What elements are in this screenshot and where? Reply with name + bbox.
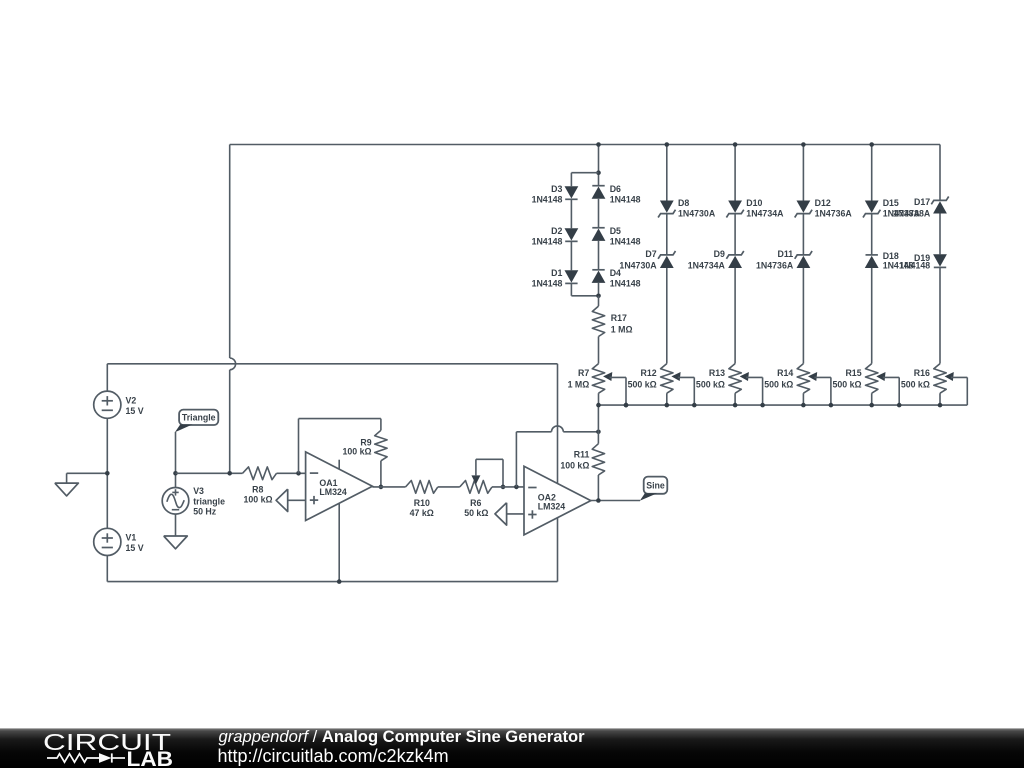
svg-text:15 V: 15 V [126,406,144,416]
voltage source V2 [94,391,144,418]
svg-text:LM324: LM324 [319,487,346,497]
svg-text:1N4738A: 1N4738A [893,208,931,218]
svg-text:grappendorf / Analog Computer: grappendorf / Analog Computer Sine Gener… [219,727,586,746]
svg-text:D11: D11 [778,249,794,259]
svg-text:Sine: Sine [646,480,665,490]
wire column x=666.8 from top bus [666,145,668,201]
svg-text:1N4736A: 1N4736A [815,208,853,218]
svg-text:LM324: LM324 [538,502,565,512]
wire top rail V+ [107,363,557,365]
wire [939,214,941,255]
potentiometer R14 500k [764,364,831,406]
svg-text:1N4730A: 1N4730A [619,261,657,271]
svg-text:D18: D18 [883,251,899,261]
node junction R6 wiper [501,485,506,490]
net flag Sine [640,477,668,501]
node junction ladder bottom [596,294,601,299]
net flag Triangle [175,410,218,433]
zener diode D11 1N4736A [756,249,812,271]
resistor R17 1M [592,296,632,364]
node junction input column [227,471,232,476]
zener diode D7 1N4730A [619,249,675,271]
node junction V3 top [173,471,178,476]
svg-text:D7: D7 [645,249,656,259]
wire top bus [230,144,940,146]
resistor R10 47k [406,481,438,518]
zener diode D10 1N4734A [726,198,784,218]
CircuitLab logo [43,729,173,768]
svg-text:100 kΩ: 100 kΩ [343,446,372,456]
node junction OA1 power on rail [337,579,342,584]
wire [570,241,572,270]
wire R8 to OA1 inverting input [277,472,306,474]
wire [939,267,941,363]
node junction V1-V2 mid [105,471,110,476]
svg-text:V2: V2 [126,396,137,406]
diode D6 1N4148 [592,184,641,205]
wire [802,214,804,255]
ground GND3 at OA1 non-inverting input [276,489,306,511]
svg-text:R16: R16 [914,368,930,378]
wire [666,268,668,364]
diode D4 1N4148 [592,268,641,289]
wire [871,268,873,364]
svg-text:D17: D17 [914,197,930,207]
svg-text:triangle: triangle [193,496,225,506]
svg-text:500 kΩ: 500 kΩ [696,379,725,389]
wire bottom summing bus [599,404,968,406]
svg-text:15 V: 15 V [126,543,144,553]
voltage source V3 triangle 50 Hz [162,486,225,517]
wire column x=803.4 from top bus [802,145,804,201]
wire [734,214,736,255]
wire [802,268,804,364]
svg-text:1N4148: 1N4148 [532,195,563,205]
wire [666,214,668,255]
svg-text:D15: D15 [883,198,899,208]
node junction OA2 inverting input [514,485,519,490]
svg-text:500 kΩ: 500 kΩ [833,379,862,389]
diode D18 1N4148 [865,251,914,271]
wire column x=735.1 from top bus [734,145,736,201]
svg-text:500 kΩ: 500 kΩ [628,379,657,389]
svg-text:50 kΩ: 50 kΩ [464,508,488,518]
wire OA1 output to R10 [372,486,405,488]
svg-text:500 kΩ: 500 kΩ [764,379,793,389]
svg-text:R7: R7 [578,368,589,378]
wire input row to R8 [176,472,243,474]
wire OA2 feedback up and across (hop over power wire) [516,426,598,487]
wire OA1 feedback up and across [299,419,381,474]
ground GND4 at OA2 non-inverting input [495,503,524,525]
svg-text:D6: D6 [610,184,621,194]
node junction ladder top [596,170,601,175]
wire OA2 output [591,500,640,502]
wire [570,199,572,228]
potentiometer R16 500k [901,364,967,406]
potentiometer R7 1M [568,364,626,406]
svg-text:D5: D5 [610,226,621,236]
wire V2 to top rail [106,364,108,391]
svg-text:1N4734A: 1N4734A [746,208,784,218]
zener diode D17 1N4738A [893,197,949,219]
wire V3 to ground [175,514,177,536]
zener diode D8 1N4730A [658,198,716,218]
svg-text:V1: V1 [126,533,137,543]
svg-text:http://circuitlab.com/c2kzk4m: http://circuitlab.com/c2kzk4m [218,746,449,766]
node junction OA1 inverting input [296,471,301,476]
wire flag to V3 [175,432,177,488]
svg-text:R10: R10 [414,498,430,508]
resistor R8 100k [243,467,277,504]
wire [598,199,600,228]
svg-text:1N4734A: 1N4734A [688,261,726,271]
svg-text:LAB: LAB [127,748,174,768]
potentiometer R12 500k [628,364,695,406]
svg-text:100 kΩ: 100 kΩ [560,461,589,471]
op-amp OA2 LM324 [524,466,591,535]
wire OA1 top power stub [338,460,340,470]
wire bottom rail V- [107,581,557,583]
node junction R11 top [596,430,601,435]
svg-text:D10: D10 [746,198,762,208]
svg-text:R15: R15 [845,368,861,378]
wire V2 to V1 [106,418,108,528]
svg-text:D1: D1 [551,268,562,278]
diode D19 1N4148 [899,253,947,271]
wire OA1 bottom power pin to V- rail [338,504,340,582]
diode D1 1N4148 [532,268,579,289]
node junction R9 output [379,485,384,490]
wire R9 to OA1 output [380,461,382,487]
svg-text:R14: R14 [777,368,793,378]
svg-text:1N4736A: 1N4736A [756,261,794,271]
resistor R11 100k feedback [560,405,604,500]
potentiometer R6 50k [460,459,503,518]
svg-text:D8: D8 [678,198,689,208]
svg-text:R12: R12 [641,368,657,378]
svg-text:1N4148: 1N4148 [532,279,563,289]
wire [598,241,600,270]
svg-text:D9: D9 [714,249,725,259]
zener diode D12 1N4736A [795,198,853,218]
wire left column bottom jog [571,283,598,295]
wire jog to left diode column [571,173,598,187]
svg-text:47 kΩ: 47 kΩ [410,508,434,518]
wire [734,268,736,364]
zener diode D9 1N4734A [688,249,744,271]
svg-text:1N4148: 1N4148 [610,279,641,289]
potentiometer R13 500k [696,364,763,406]
svg-text:D2: D2 [551,226,562,236]
svg-text:1 MΩ: 1 MΩ [568,379,590,389]
wire vertical from top bus to input node (hop over top rail) [230,145,236,474]
svg-text:V3: V3 [193,486,204,496]
wire OA2 top power pin from V+ rail [557,364,559,484]
diode D5 1N4148 [592,226,641,247]
wire V1 to bottom rail [106,556,108,582]
svg-text:1N4148: 1N4148 [610,195,641,205]
node junction OA2 output [596,498,601,503]
svg-text:500 kΩ: 500 kΩ [901,379,930,389]
wire ground stub at V1/V2 midpoint [67,473,108,483]
svg-text:R8: R8 [252,484,263,494]
svg-text:1N4730A: 1N4730A [678,208,716,218]
svg-text:R13: R13 [709,368,725,378]
ground GND1 [55,483,79,496]
wire [871,214,873,255]
svg-text:D3: D3 [551,184,562,194]
svg-text:R6: R6 [470,498,481,508]
wire main diode column from top bus [598,145,600,186]
svg-text:D12: D12 [815,198,831,208]
resistor R9 100k feedback [343,430,388,461]
voltage source V1 [94,528,144,555]
wire column 5 from top bus [871,145,873,201]
wire R10 to R6 [438,486,460,488]
svg-text:100 kΩ: 100 kΩ [243,494,272,504]
svg-text:1N4148: 1N4148 [610,237,641,247]
svg-text:R17: R17 [611,313,627,323]
diode D2 1N4148 [532,226,579,247]
footer bar [0,728,1024,768]
node junctions on buses [596,142,942,407]
footer title [219,727,586,746]
wire right column to ladder bottom [598,283,600,296]
svg-text:R11: R11 [574,450,590,460]
svg-text:50 Hz: 50 Hz [193,507,217,517]
diode D3 1N4148 [532,184,579,205]
potentiometer R15 500k [833,364,900,406]
svg-text:Triangle: Triangle [182,413,216,423]
svg-text:1 MΩ: 1 MΩ [611,325,633,335]
wire top rail corner down [557,363,559,365]
zener diode D15 1N4738A [863,198,921,219]
svg-text:1N4148: 1N4148 [532,237,563,247]
ground GND2 [164,536,188,549]
wire OA2 bottom power pin to V- rail [557,518,559,582]
wire column 6 from top bus corner [939,145,941,201]
op-amp OA1 LM324 [306,452,373,521]
wire R6 to OA2 inverting input [492,486,524,488]
svg-text:1N4148: 1N4148 [899,261,930,271]
footer url [218,746,449,766]
